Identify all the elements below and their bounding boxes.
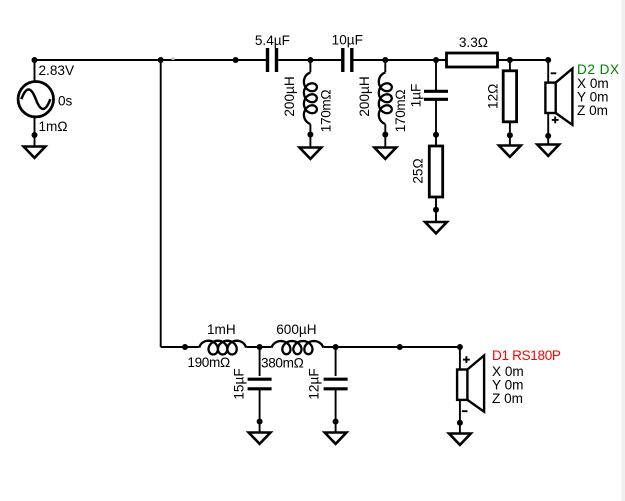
svg-text:1mH: 1mH bbox=[207, 322, 236, 337]
node D1 top bbox=[457, 344, 463, 350]
svg-text:12µF: 12µF bbox=[307, 368, 322, 399]
inductor L4 200µH bbox=[384, 60, 386, 72]
node lower rail dot4 bbox=[397, 344, 403, 350]
wire bbox=[161, 346, 199, 348]
node R3 top bbox=[507, 57, 513, 63]
wire bbox=[335, 347, 337, 376]
svg-text:Z 0m: Z 0m bbox=[492, 391, 523, 406]
inductor L1 1mH bbox=[199, 341, 246, 355]
svg-text:3.3Ω: 3.3Ω bbox=[459, 35, 488, 50]
wire bbox=[435, 101, 437, 147]
node L3 top bbox=[307, 57, 313, 63]
resistor R3 12Ω bbox=[503, 71, 516, 122]
ground L4 bbox=[374, 148, 396, 159]
inductor L2 600µH bbox=[272, 341, 324, 354]
node lower rail dot3 bbox=[333, 344, 339, 350]
svg-text:190mΩ: 190mΩ bbox=[187, 355, 230, 370]
node feed junction bbox=[158, 57, 164, 63]
ground R3 bbox=[499, 146, 521, 157]
wire bbox=[459, 401, 461, 434]
wire bbox=[509, 60, 511, 71]
capacitor C2 10µF bbox=[343, 48, 352, 72]
node R2 bottom bbox=[433, 207, 439, 213]
wire bbox=[335, 390, 337, 433]
svg-text:1µF: 1µF bbox=[409, 84, 424, 108]
wire bbox=[278, 59, 341, 61]
ground D2 bbox=[537, 145, 559, 156]
inductor L3 200µH bbox=[309, 60, 311, 72]
svg-text:200µH: 200µH bbox=[357, 76, 372, 116]
capacitor C3 1µF bbox=[424, 91, 448, 99]
ground source bbox=[24, 147, 46, 158]
wire bbox=[35, 59, 266, 61]
polarity + bbox=[463, 356, 470, 363]
svg-text:D1 RS180P: D1 RS180P bbox=[492, 348, 561, 363]
svg-text:0s: 0s bbox=[58, 94, 73, 109]
svg-text:170mΩ: 170mΩ bbox=[319, 90, 334, 133]
node C4 bottom bbox=[257, 419, 263, 425]
capacitor C4 15µF bbox=[248, 379, 272, 389]
svg-text:170mΩ: 170mΩ bbox=[393, 90, 408, 133]
wire bbox=[353, 59, 446, 61]
speaker D2 bbox=[545, 69, 572, 125]
resistor R1 3.3Ω bbox=[447, 53, 498, 67]
svg-text:600µH: 600µH bbox=[276, 322, 316, 337]
svg-text:2.83V: 2.83V bbox=[39, 63, 75, 78]
ground C5 bbox=[325, 433, 347, 444]
ground C4 bbox=[249, 433, 271, 444]
wire bbox=[547, 60, 549, 82]
wire bbox=[459, 347, 461, 369]
svg-text:15µF: 15µF bbox=[232, 368, 247, 399]
wire bbox=[435, 60, 437, 90]
wire bbox=[259, 347, 261, 376]
node L4 top bbox=[382, 57, 388, 63]
svg-text:200µH: 200µH bbox=[282, 76, 297, 116]
svg-text:Z 0m: Z 0m bbox=[577, 103, 608, 118]
stray marker bbox=[172, 57, 175, 60]
node D2 bottom bbox=[545, 133, 551, 139]
speaker D1 bbox=[457, 356, 484, 412]
wire bbox=[247, 346, 272, 348]
polarity - bbox=[462, 410, 468, 412]
svg-text:25Ω: 25Ω bbox=[411, 158, 426, 183]
capacitor C5 12µF bbox=[324, 379, 348, 389]
capacitor C1 5.4µF bbox=[268, 48, 277, 72]
node rail mid bbox=[233, 57, 239, 63]
node D2 top bbox=[545, 57, 551, 63]
node L3 bottom bbox=[307, 132, 313, 138]
wire bbox=[34, 60, 36, 82]
svg-text:1mΩ: 1mΩ bbox=[39, 119, 68, 134]
wire bbox=[259, 390, 261, 433]
polarity + bbox=[552, 117, 559, 124]
wire bbox=[34, 117, 36, 147]
svg-text:10µF: 10µF bbox=[332, 32, 363, 47]
window edge strip bbox=[622, 0, 625, 501]
svg-text:D2 DX: D2 DX bbox=[577, 62, 620, 77]
wire bbox=[509, 122, 511, 146]
node source top bbox=[32, 57, 38, 63]
node lower rail dot1 bbox=[182, 344, 188, 350]
wire bbox=[498, 59, 549, 61]
wire bbox=[435, 197, 437, 223]
wire bbox=[547, 114, 549, 145]
node R3 bottom bbox=[507, 132, 513, 138]
svg-text:12Ω: 12Ω bbox=[486, 84, 501, 109]
resistor R2 25Ω bbox=[429, 146, 442, 197]
svg-text:380mΩ: 380mΩ bbox=[261, 356, 304, 371]
ground R2 bbox=[425, 222, 447, 233]
node C3/R2 bbox=[433, 132, 439, 138]
node source bottom bbox=[32, 132, 38, 138]
node C3 top bbox=[433, 57, 439, 63]
voltage source V1 bbox=[18, 82, 53, 117]
svg-text:5.4µF: 5.4µF bbox=[255, 33, 290, 48]
ground L3 bbox=[300, 148, 322, 159]
node L4 bottom bbox=[382, 132, 388, 138]
node C5 bottom bbox=[333, 419, 339, 425]
polarity - bbox=[551, 72, 557, 74]
wire bbox=[160, 60, 162, 347]
ground D1 bbox=[449, 434, 471, 445]
wire bbox=[324, 346, 460, 348]
node D1 bottom bbox=[457, 420, 463, 426]
node lower rail dot2 bbox=[257, 344, 263, 350]
